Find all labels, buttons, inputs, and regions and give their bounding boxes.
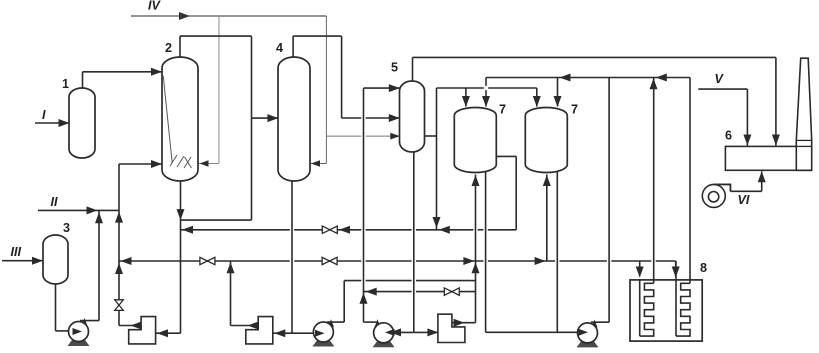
svg-text:II: II (51, 195, 58, 209)
svg-text:5: 5 (391, 61, 398, 75)
svg-text:3: 3 (63, 221, 70, 235)
svg-text:6: 6 (725, 129, 732, 143)
svg-text:4: 4 (276, 41, 283, 55)
svg-text:IV: IV (148, 0, 161, 13)
svg-text:III: III (11, 245, 22, 259)
svg-text:V: V (715, 72, 725, 86)
svg-text:VI: VI (738, 193, 750, 207)
svg-text:2: 2 (165, 41, 172, 55)
svg-text:1: 1 (62, 77, 69, 91)
svg-text:7: 7 (571, 103, 578, 117)
svg-text:8: 8 (700, 261, 707, 275)
svg-text:7: 7 (499, 103, 506, 117)
svg-text:I: I (42, 108, 46, 122)
